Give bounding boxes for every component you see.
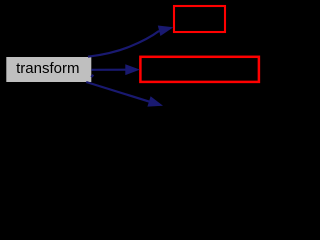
edge transform -> hidden bottom node: [86, 82, 163, 107]
node top (truncated callee, red border): [174, 6, 225, 32]
edge transform -> top node: [88, 26, 173, 57]
node transform (current node, grey fill): [6, 57, 91, 82]
svg-text:transform: transform: [16, 60, 79, 77]
node middle (truncated callee, red border): [140, 57, 259, 82]
edge transform -> middle node: [91, 64, 140, 77]
